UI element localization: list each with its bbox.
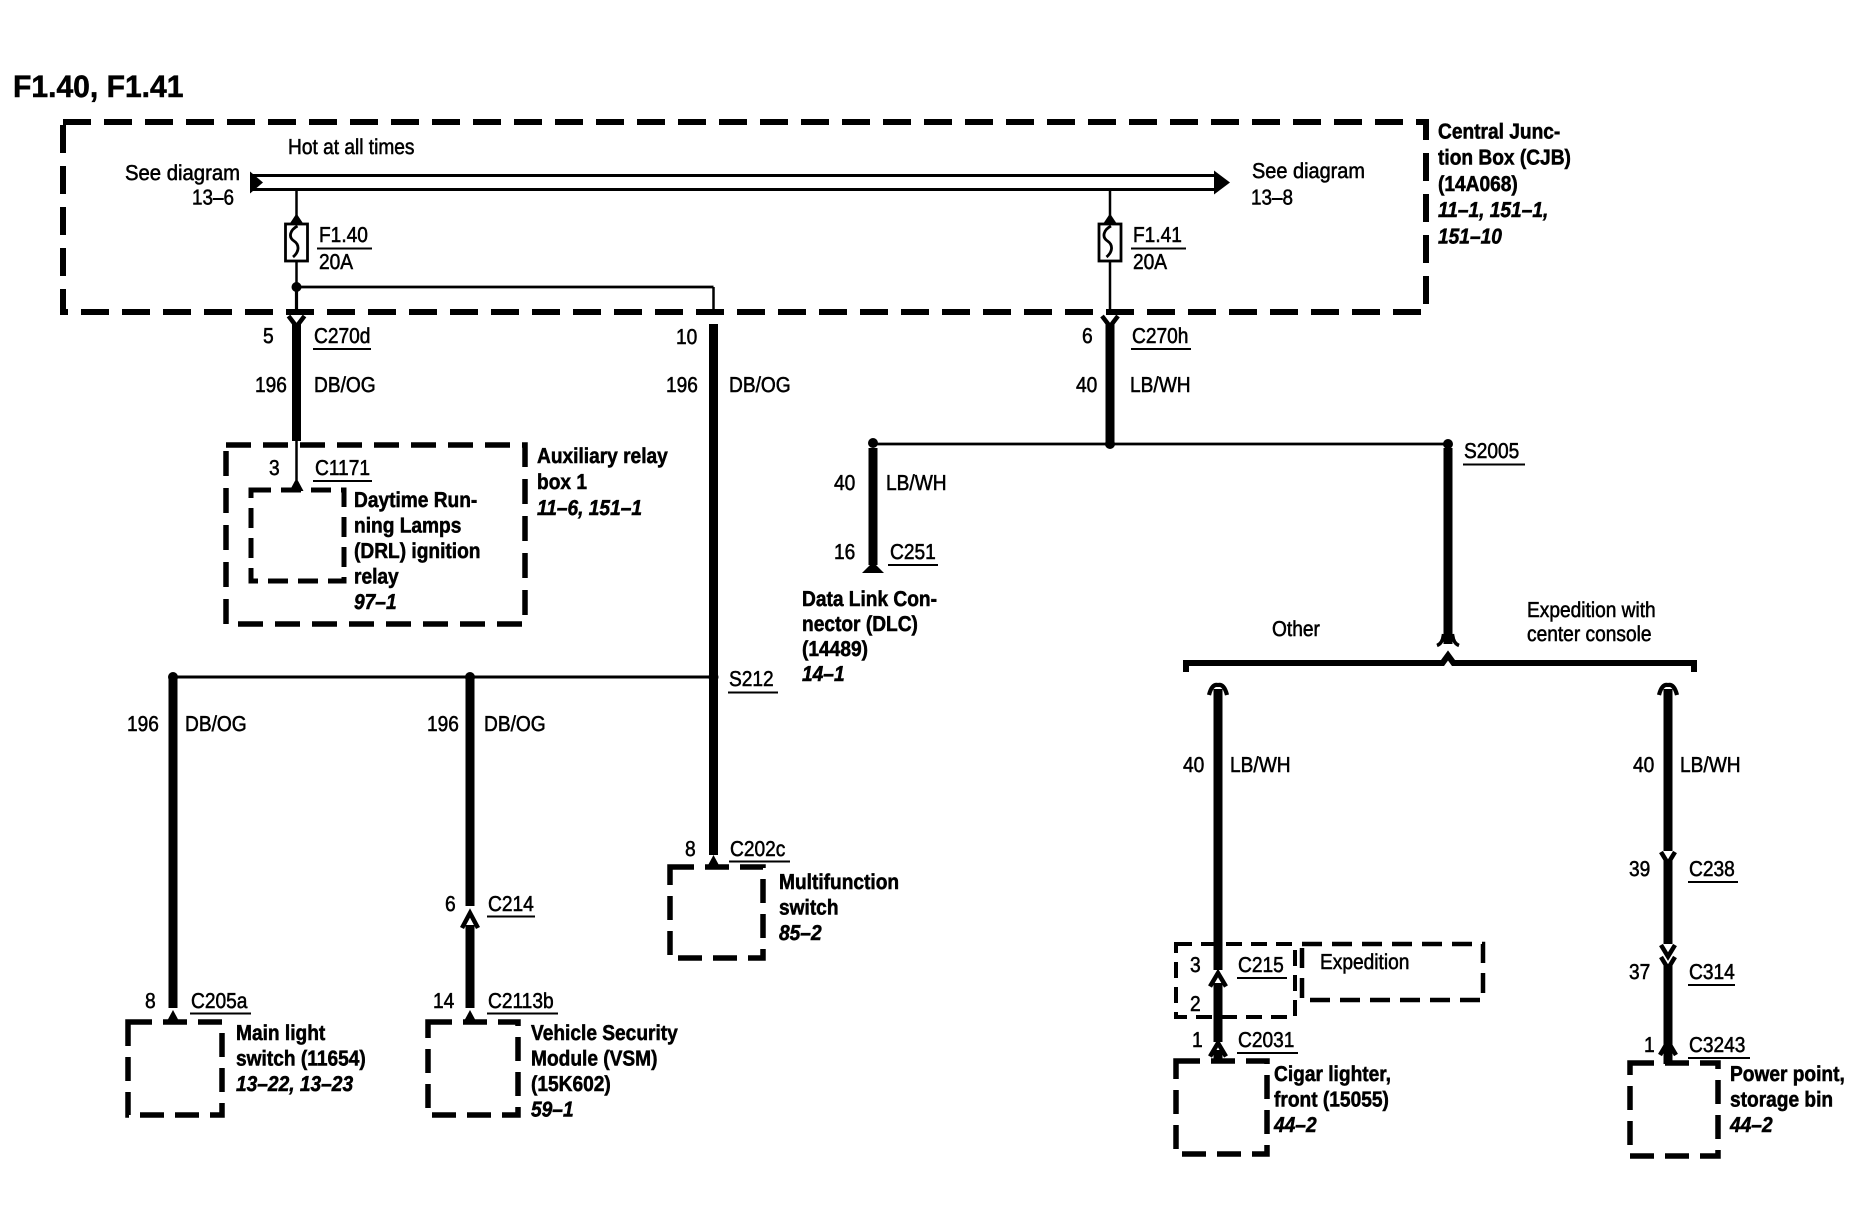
power bus bar (Hot at all times): [250, 171, 1230, 195]
svg-text:6: 6: [445, 892, 456, 916]
svg-text:F1.40, F1.41: F1.40, F1.41: [13, 69, 184, 104]
svg-text:3: 3: [269, 456, 280, 480]
svg-text:LB/WH: LB/WH: [1680, 753, 1741, 777]
wire label 196 DB/OG (far left): [127, 712, 247, 736]
junction dot left: [168, 672, 178, 682]
svg-text:44–2: 44–2: [1273, 1113, 1317, 1137]
arrow into fuse F1.41: [1103, 214, 1117, 225]
svg-text:DB/OG: DB/OG: [314, 373, 376, 397]
connector C251 pin 16: [834, 540, 938, 565]
connector C270d pin 10: [676, 325, 697, 349]
connector C215 enclosure: [1176, 944, 1295, 1017]
svg-text:C270d: C270d: [314, 324, 370, 348]
svg-text:10: 10: [676, 325, 697, 349]
svg-text:Cigar lighter,: Cigar lighter,: [1274, 1062, 1391, 1086]
svg-text:switch (11654): switch (11654): [236, 1047, 366, 1071]
svg-text:11–1, 151–1,: 11–1, 151–1,: [1438, 198, 1548, 222]
multifunction switch box: [670, 867, 763, 958]
wire 40 LB/WH from S2005: [1437, 448, 1459, 646]
wire through C215: [1214, 983, 1223, 1042]
svg-text:C214: C214: [488, 892, 534, 916]
svg-text:C215: C215: [1238, 953, 1284, 977]
wire S212 to multifunction switch: [709, 677, 718, 855]
svg-text:C3243: C3243: [1689, 1033, 1745, 1057]
cigar lighter box: [1176, 1061, 1267, 1154]
option split bracket: [1186, 656, 1694, 673]
wire node to branch (horizontal): [297, 286, 714, 289]
svg-text:Expedition with: Expedition with: [1527, 598, 1656, 622]
svg-text:85–2: 85–2: [779, 921, 822, 945]
svg-text:Module (VSM): Module (VSM): [531, 1047, 658, 1071]
connector C202c pin 8: [685, 837, 790, 868]
svg-text:Daytime Run-: Daytime Run-: [354, 488, 477, 512]
svg-text:14–1: 14–1: [802, 662, 845, 686]
svg-text:C238: C238: [1689, 857, 1735, 881]
junction node under F1.41: [1105, 439, 1115, 449]
splice S212: [709, 667, 779, 693]
connector C1171 pin 3: [269, 441, 372, 491]
Hot at all times label: [288, 135, 415, 159]
svg-text:(DRL) ignition: (DRL) ignition: [354, 539, 481, 563]
svg-text:LB/WH: LB/WH: [1230, 753, 1291, 777]
svg-text:196: 196: [127, 712, 159, 736]
svg-text:C205a: C205a: [191, 989, 247, 1013]
svg-text:C270h: C270h: [1132, 324, 1188, 348]
wire 196 DB/OG to VSM (upper): [466, 677, 475, 906]
svg-text:39: 39: [1629, 857, 1650, 881]
connector C215 pins 3/2: [1190, 953, 1287, 1016]
wire 40 LB/WH from C270h: [1106, 324, 1115, 444]
wire label 40 LB/WH (power point): [1633, 753, 1741, 777]
svg-text:40: 40: [1076, 373, 1097, 397]
connector C270h pin 6 arrow: [1082, 316, 1191, 349]
svg-text:13–8: 13–8: [1251, 186, 1293, 210]
connector C238 pin 39: [1629, 852, 1738, 882]
wire bus to fuse F1.40: [295, 191, 298, 217]
See diagram 13-8 label: [1251, 159, 1365, 210]
svg-text:2: 2: [1190, 992, 1201, 1016]
arrow into fuse F1.40: [290, 214, 304, 225]
auxiliary relay box 1 enclosure: [226, 445, 525, 624]
svg-text:LB/WH: LB/WH: [1130, 373, 1191, 397]
auxiliary relay box label: [537, 444, 668, 520]
svg-text:40: 40: [1633, 753, 1654, 777]
svg-text:14: 14: [433, 989, 454, 1013]
svg-text:196: 196: [255, 373, 287, 397]
wire S212 horizontal: [173, 676, 714, 679]
svg-text:center console: center console: [1527, 622, 1652, 646]
svg-text:11–6, 151–1: 11–6, 151–1: [537, 496, 642, 520]
wire fuse F1.40 to node: [295, 261, 298, 287]
svg-text:196: 196: [427, 712, 459, 736]
title F1.40, F1.41: [13, 69, 184, 104]
svg-text:(14A068): (14A068): [1438, 172, 1518, 196]
junction dot DLC: [868, 438, 878, 448]
svg-text:37: 37: [1629, 960, 1650, 984]
DRL ignition relay box: [251, 490, 344, 581]
arrow up left branch: [1209, 685, 1227, 695]
cigar lighter label: [1273, 1062, 1391, 1137]
fuse F1.40 value label: [317, 223, 372, 274]
svg-text:ning Lamps: ning Lamps: [354, 514, 461, 538]
wire C3243 to power point: [1664, 1050, 1673, 1064]
wire 196 DB/OG branch to S212: [709, 324, 718, 677]
node below F1.40 (junction dot): [292, 282, 302, 292]
svg-text:59–1: 59–1: [531, 1098, 574, 1122]
wire C238 to C314: [1664, 860, 1673, 944]
splice S2005: [1443, 439, 1525, 465]
svg-text:151–10: 151–10: [1438, 225, 1502, 249]
svg-text:Expedition: Expedition: [1320, 950, 1409, 974]
fuse F1.41 20A: [1099, 224, 1121, 261]
svg-text:See diagram: See diagram: [125, 161, 240, 185]
svg-text:5: 5: [263, 324, 274, 348]
svg-text:40: 40: [1183, 753, 1204, 777]
svg-text:switch: switch: [779, 896, 839, 920]
Expedition option box: [1302, 944, 1483, 1000]
Expedition option label: [1320, 950, 1409, 974]
wire C214 to C2113b: [466, 925, 475, 1008]
connector C270d pin 5: [263, 316, 371, 349]
svg-text:C2031: C2031: [1238, 1028, 1294, 1052]
Other option label: [1272, 617, 1320, 641]
connector C3243 pin 1: [1644, 1033, 1750, 1058]
wire label 196 DB/OG (left fuse drop): [255, 373, 376, 397]
wire 40 LB/WH left branch: [1214, 689, 1223, 970]
svg-text:20A: 20A: [319, 250, 354, 274]
svg-text:DB/OG: DB/OG: [729, 373, 791, 397]
wire label 196 DB/OG (middle): [427, 712, 546, 736]
svg-text:13–22, 13–23: 13–22, 13–23: [236, 1072, 353, 1096]
svg-text:DB/OG: DB/OG: [185, 712, 247, 736]
wire 196 DB/OG from C270d: [292, 324, 301, 441]
main light switch box: [128, 1022, 222, 1115]
wire horizontal DLC row: [873, 443, 1448, 446]
svg-text:16: 16: [834, 540, 855, 564]
wire label 40 LB/WH (right fuse drop): [1076, 373, 1191, 397]
svg-text:C1171: C1171: [315, 456, 370, 480]
svg-text:Multifunction: Multifunction: [779, 870, 899, 894]
svg-text:8: 8: [145, 989, 156, 1013]
svg-text:Power point,: Power point,: [1730, 1062, 1845, 1086]
See diagram 13-6 label: [125, 161, 240, 210]
svg-text:C202c: C202c: [730, 837, 786, 861]
Expedition with center console label: [1527, 598, 1656, 646]
svg-text:1: 1: [1192, 1028, 1203, 1052]
svg-text:13–6: 13–6: [192, 186, 234, 210]
connector C2113b pin 14: [433, 989, 558, 1023]
wire fuse F1.41 to CJB border: [1109, 261, 1112, 314]
svg-text:S212: S212: [729, 667, 774, 691]
svg-text:44–2: 44–2: [1729, 1113, 1773, 1137]
svg-text:F1.40: F1.40: [319, 223, 368, 247]
wire 196 DB/OG to main light switch: [169, 677, 178, 1008]
svg-text:97–1: 97–1: [354, 590, 397, 614]
wire C2031 to cigar lighter: [1214, 1050, 1223, 1062]
wire bus to fuse F1.41: [1109, 191, 1112, 217]
power point box: [1630, 1063, 1718, 1156]
svg-text:1: 1: [1644, 1033, 1655, 1057]
wire label 40 LB/WH (cigar): [1183, 753, 1291, 777]
junction dot middle: [465, 672, 475, 682]
svg-text:S2005: S2005: [1464, 439, 1519, 463]
svg-text:box 1: box 1: [537, 470, 587, 494]
power point label: [1729, 1062, 1845, 1137]
wire C314 to C3243: [1664, 964, 1673, 1050]
svg-text:Main light: Main light: [236, 1021, 325, 1045]
svg-text:Auxiliary relay: Auxiliary relay: [537, 444, 668, 468]
svg-text:tion Box (CJB): tion Box (CJB): [1438, 146, 1571, 170]
wire label 196 DB/OG (branch): [666, 373, 791, 397]
svg-text:nector (DLC): nector (DLC): [802, 612, 918, 636]
svg-text:C251: C251: [890, 540, 936, 564]
connector C205a pin 8: [145, 989, 251, 1023]
svg-text:3: 3: [1190, 953, 1201, 977]
wire 40 LB/WH right branch: [1664, 689, 1673, 851]
wire label 40 LB/WH (DLC): [834, 471, 947, 495]
multifunction switch label: [779, 870, 899, 945]
svg-text:196: 196: [666, 373, 698, 397]
svg-text:(14489): (14489): [802, 637, 868, 661]
svg-text:Vehicle Security: Vehicle Security: [531, 1021, 678, 1045]
CJB label text: [1438, 119, 1571, 248]
Central Junction Box (CJB) dashed enclosure: [63, 122, 1426, 312]
DLC terminal foot: [862, 563, 884, 573]
fuse F1.41 value label: [1131, 223, 1186, 274]
wire branch vertical inside CJB: [712, 287, 715, 314]
svg-text:DB/OG: DB/OG: [484, 712, 546, 736]
svg-text:relay: relay: [354, 565, 399, 589]
svg-text:Data Link Con-: Data Link Con-: [802, 587, 937, 611]
svg-text:C314: C314: [1689, 960, 1735, 984]
svg-text:40: 40: [834, 471, 855, 495]
svg-text:storage bin: storage bin: [1730, 1088, 1833, 1112]
svg-text:Other: Other: [1272, 617, 1320, 641]
svg-text:Hot at all times: Hot at all times: [288, 135, 415, 159]
arrow up right branch: [1659, 685, 1677, 695]
svg-text:LB/WH: LB/WH: [886, 471, 947, 495]
svg-text:20A: 20A: [1133, 250, 1168, 274]
fuse F1.40 20A: [286, 224, 308, 261]
vehicle security module box: [428, 1022, 518, 1115]
DRL ignition relay label: [354, 488, 481, 614]
connector C2031 pin 1: [1192, 1028, 1298, 1057]
svg-text:8: 8: [685, 837, 696, 861]
svg-text:6: 6: [1082, 324, 1093, 348]
main light switch label: [236, 1021, 366, 1096]
svg-text:See diagram: See diagram: [1252, 159, 1365, 183]
data link connector label: [802, 587, 937, 686]
wire node to CJB border (left): [295, 287, 298, 314]
svg-text:Central Junc-: Central Junc-: [1438, 119, 1560, 143]
connector C214 pin 6: [445, 892, 535, 928]
svg-text:C2113b: C2113b: [488, 989, 554, 1013]
svg-text:front (15055): front (15055): [1274, 1088, 1389, 1112]
wire 40 LB/WH to DLC: [869, 448, 878, 565]
connector C314 pin 37: [1629, 945, 1735, 985]
svg-text:F1.41: F1.41: [1133, 223, 1182, 247]
svg-text:(15K602): (15K602): [531, 1072, 611, 1096]
vehicle security module label: [531, 1021, 678, 1122]
